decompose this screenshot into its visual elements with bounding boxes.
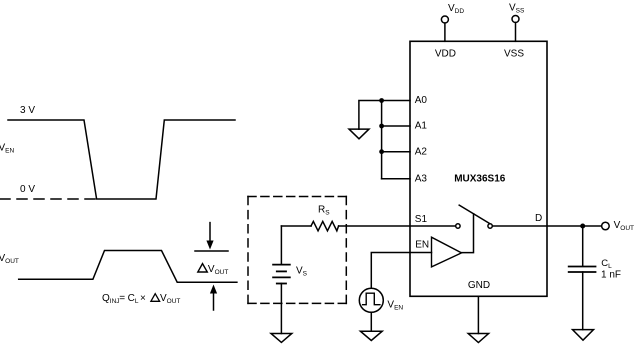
svg-text:VSS: VSS: [504, 49, 524, 60]
wire S1 left segment: [281, 225, 311, 227]
wire GND pin: [477, 296, 479, 333]
junction dot A0: [379, 98, 384, 103]
terminal VOUT: [602, 222, 610, 230]
svg-text:S1: S1: [415, 214, 428, 225]
wire VS vertical top: [280, 226, 282, 264]
ground under CL: [573, 330, 594, 341]
dashed box (source network): [248, 196, 346, 198]
wire A0: [382, 100, 410, 102]
wire A1: [382, 125, 410, 127]
wire D output: [492, 225, 601, 227]
svg-text:1 nF: 1 nF: [601, 270, 621, 281]
terminal VDD: [441, 16, 448, 23]
switch pole circle: [456, 224, 460, 228]
svg-text:MUX36S16: MUX36S16: [454, 174, 506, 185]
wire bus to ground: [359, 101, 382, 130]
delta VOUT up arrow: [213, 294, 215, 311]
battery VS: [273, 265, 290, 284]
svg-text:D: D: [535, 213, 542, 224]
delta VOUT down arrow: [209, 223, 211, 241]
svg-text:EN: EN: [415, 240, 429, 251]
waveform VEN trace: [8, 120, 235, 199]
svg-text:0 V: 0 V: [20, 184, 35, 195]
ground under chip: [468, 334, 488, 343]
junction dot A2: [379, 149, 384, 154]
svg-text:=: =: [119, 293, 125, 304]
wire address bus vertical: [381, 101, 383, 179]
wire A2: [382, 151, 410, 153]
wire CL to ground: [582, 272, 584, 330]
switch arm: [459, 205, 489, 223]
waveform VEN 0V dashed baseline: [0, 198, 97, 200]
capacitor CL: [569, 267, 596, 273]
svg-text:GND: GND: [468, 280, 490, 291]
svg-text:A3: A3: [415, 173, 428, 184]
ground under VEN source: [360, 331, 382, 340]
switch throw circle: [488, 224, 492, 228]
ground under VS: [271, 334, 292, 343]
svg-text:A1: A1: [415, 121, 428, 132]
junction dot A1: [379, 124, 384, 129]
delta VOUT reference line: [195, 250, 228, 252]
wire S1 to switch pole: [339, 225, 456, 227]
svg-text:×: ×: [140, 293, 146, 304]
switch control link: [462, 214, 474, 253]
svg-text:VDD: VDD: [435, 49, 456, 60]
pulse source VEN circle: [359, 288, 383, 312]
ground at address bus: [349, 129, 369, 139]
wire VEN source to EN: [371, 253, 431, 289]
svg-text:A0: A0: [415, 95, 428, 106]
chip MUX36S16 box: [410, 41, 547, 296]
resistor RS: [311, 221, 339, 230]
wire VEN source to ground: [370, 312, 372, 331]
svg-text:A2: A2: [415, 146, 428, 157]
wire A3: [382, 178, 410, 180]
wire node to CL: [582, 226, 584, 266]
terminal VSS: [512, 16, 519, 23]
waveform VOUT trace: [19, 251, 237, 283]
label delta VOUT: [198, 264, 208, 272]
node dot at D output: [580, 224, 585, 229]
buffer U1 (EN driver): [432, 237, 462, 267]
svg-text:3 V: 3 V: [20, 105, 35, 116]
wire VS to ground: [280, 284, 282, 334]
